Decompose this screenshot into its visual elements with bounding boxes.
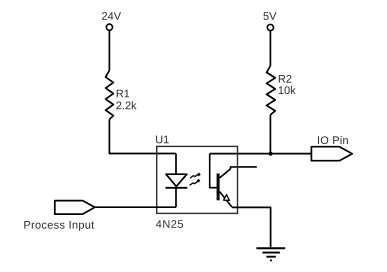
transistor emitter arrowhead bbox=[224, 195, 230, 201]
wire LED anode bbox=[175, 154, 177, 175]
label R2 bbox=[279, 75, 292, 83]
optocoupler U1 package outline bbox=[157, 146, 238, 213]
wire LED cathode to Process Input bbox=[95, 206, 176, 208]
label R1 bbox=[117, 90, 130, 98]
diode LED cathode bar bbox=[166, 187, 188, 189]
light arrow upper bbox=[190, 174, 198, 178]
value 10k bbox=[279, 86, 296, 94]
diode LED triangle bbox=[166, 174, 187, 186]
wire LED cathode down bbox=[175, 188, 177, 207]
ground bbox=[256, 248, 285, 260]
wire R2 to junction bbox=[269, 115, 271, 154]
node 24V label bbox=[102, 12, 121, 20]
wire R1 to LED anode bbox=[109, 119, 176, 153]
wire 5V to R2 bbox=[269, 31, 271, 66]
node 5V label bbox=[263, 12, 276, 20]
wire emitter to ground bbox=[232, 207, 271, 248]
transistor Q base bar bbox=[217, 174, 220, 201]
transistor collector stub bbox=[220, 167, 257, 178]
resistor R1 bbox=[106, 71, 114, 120]
junction dot bbox=[269, 152, 273, 156]
wire base to IO Pin bbox=[210, 153, 312, 155]
light arrow lower bbox=[190, 181, 198, 185]
label U1 bbox=[156, 136, 169, 144]
node 24V terminal circle bbox=[106, 24, 112, 30]
wire 24V to R1 bbox=[108, 31, 110, 71]
transistor base lead bbox=[210, 154, 217, 188]
connector Process Input bbox=[55, 201, 95, 215]
transistor emitter lead bbox=[220, 192, 232, 207]
label 4N25 bbox=[156, 220, 183, 228]
label IO Pin bbox=[318, 136, 348, 144]
label Process Input bbox=[24, 221, 94, 231]
resistor R2 bbox=[267, 66, 276, 115]
node 5V terminal circle bbox=[267, 24, 273, 30]
value 2.2k bbox=[116, 101, 136, 109]
connector IO Pin bbox=[311, 147, 352, 161]
